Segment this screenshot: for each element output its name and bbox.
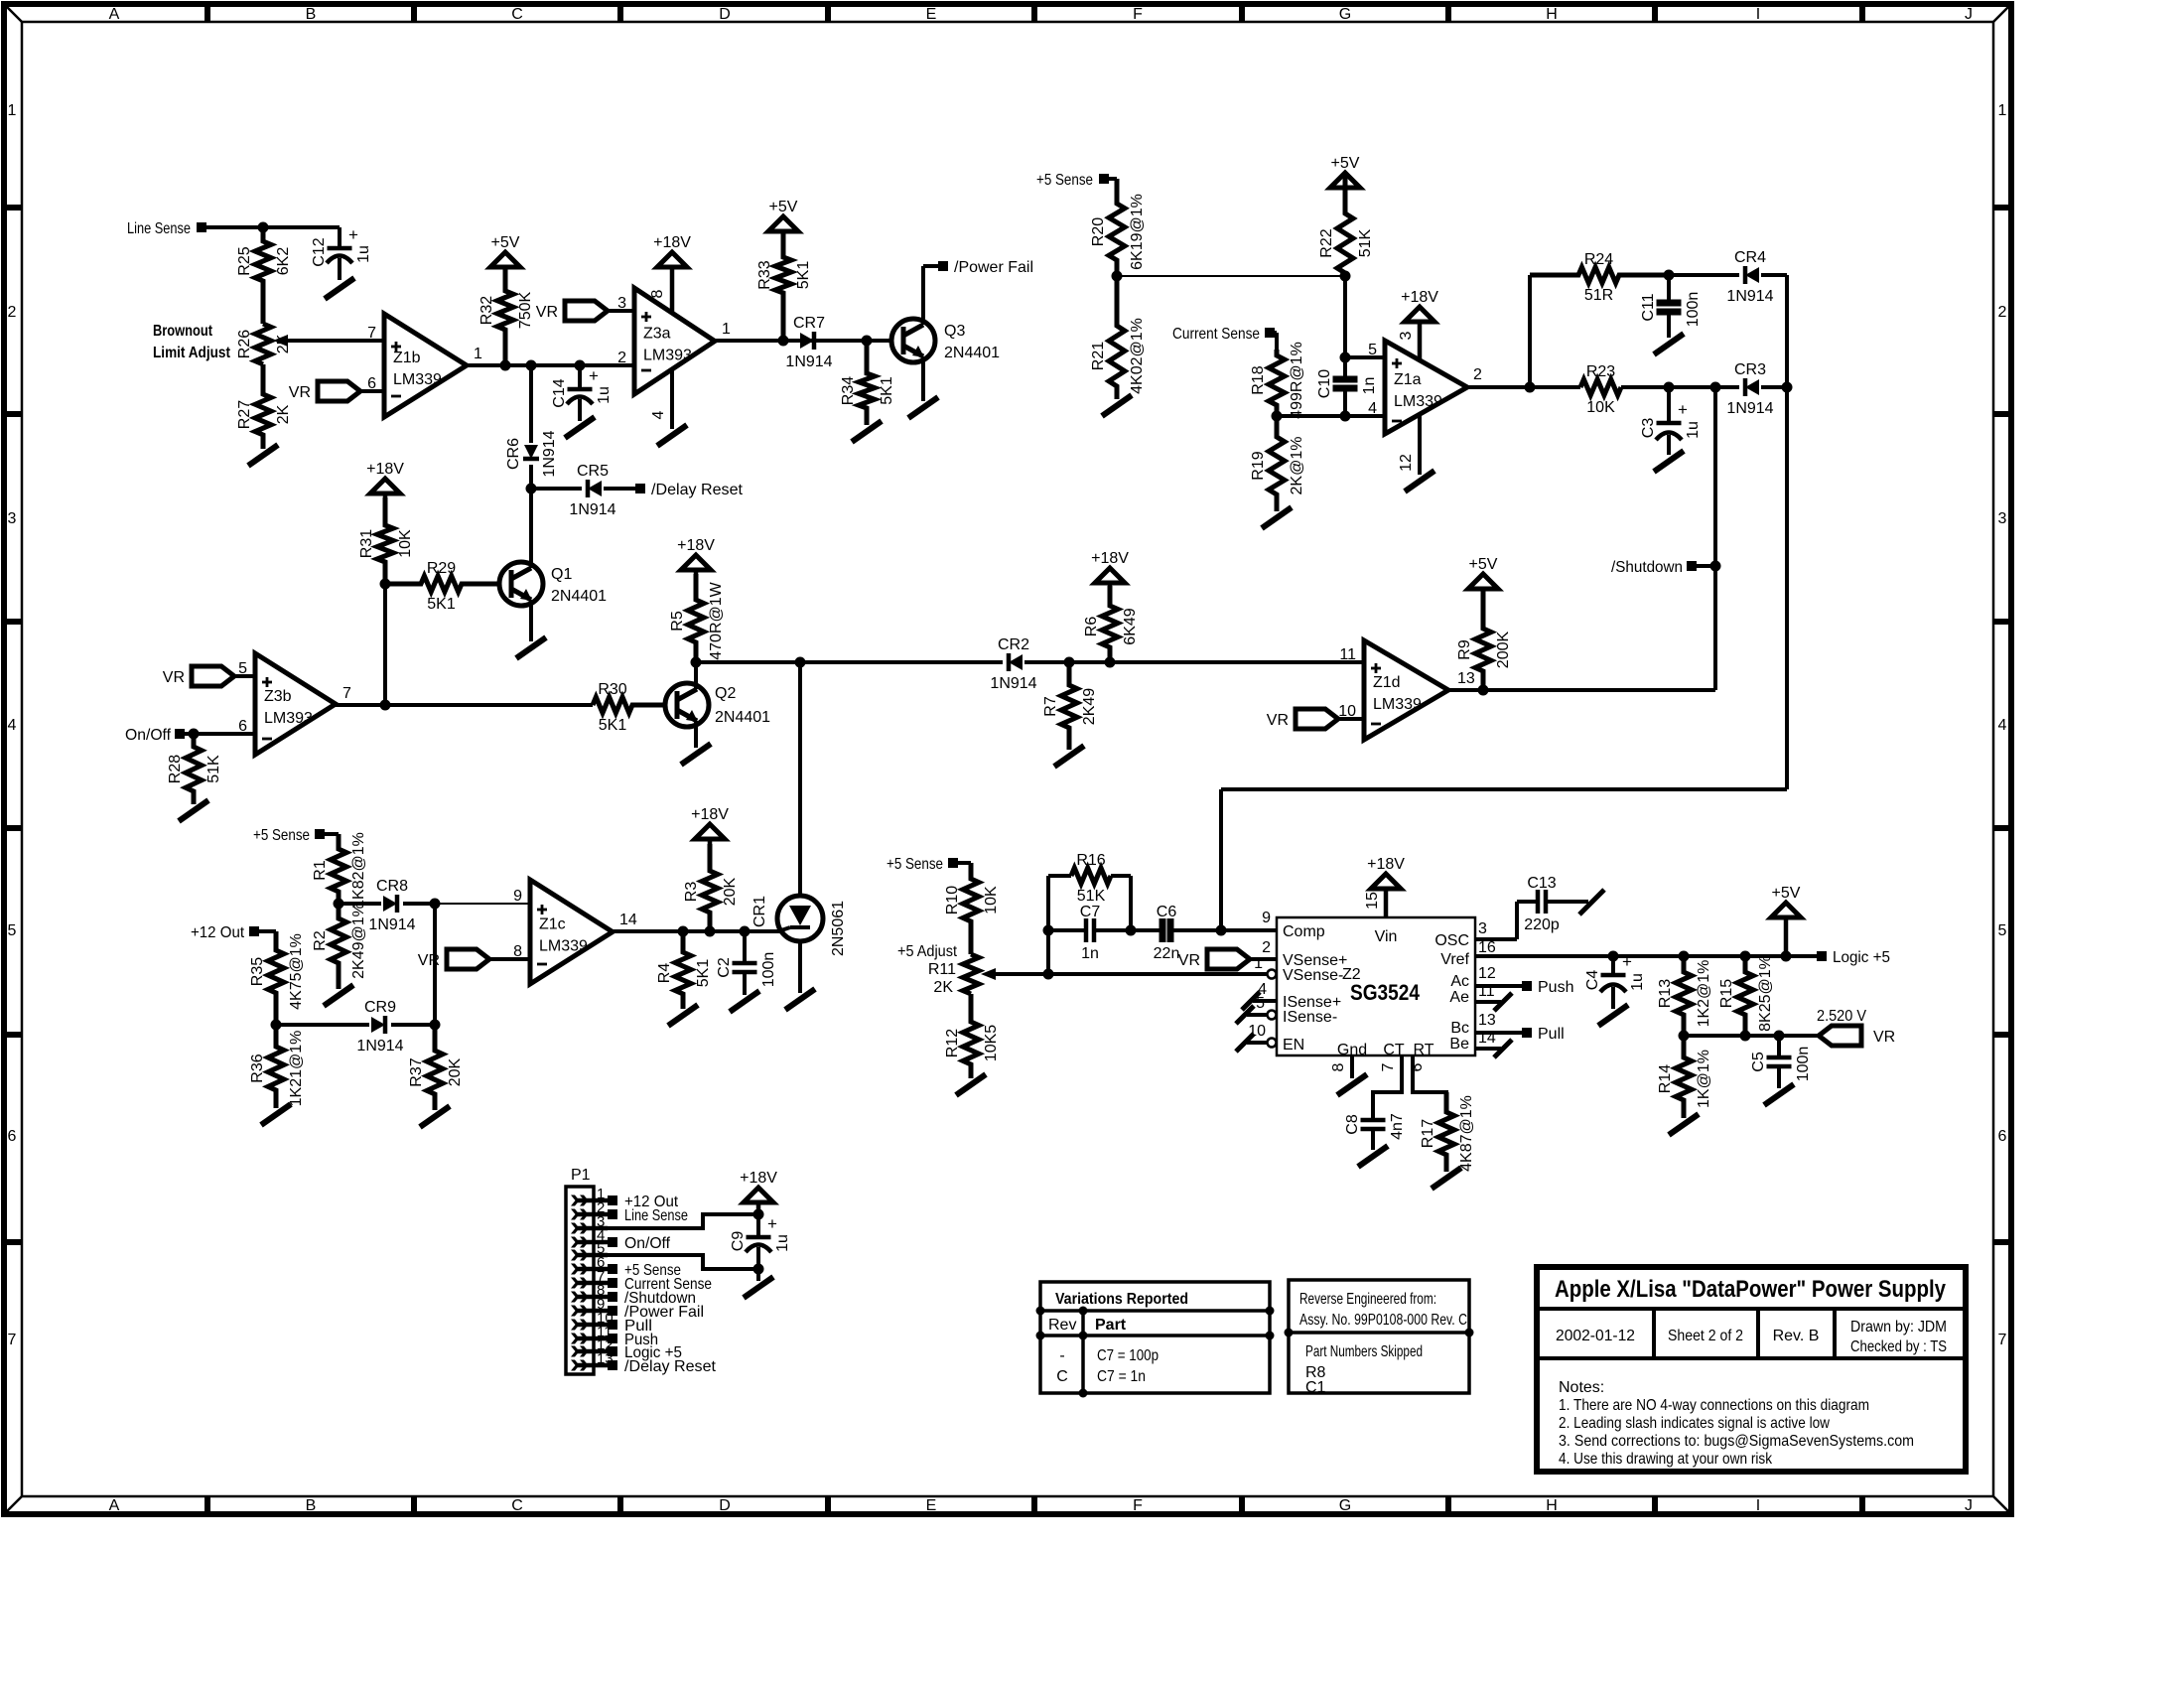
node junction: [1112, 271, 1123, 282]
ground: [179, 800, 208, 821]
svg-text:4K02@1%: 4K02@1%: [1129, 318, 1146, 394]
svg-text:2K: 2K: [933, 979, 953, 996]
resistor R14: [1676, 1036, 1692, 1118]
wire: [1270, 331, 1277, 335]
node /Delay Reset terminal: [635, 484, 645, 493]
svg-text:C7 = 100p: C7 = 100p: [1097, 1347, 1159, 1364]
svg-text:1K@1%: 1K@1%: [1696, 1050, 1712, 1108]
wire Ac: [1475, 984, 1523, 988]
node junction: [740, 926, 751, 937]
svg-text:1u: 1u: [774, 1234, 791, 1252]
node junction: [1525, 382, 1536, 393]
resistor R35: [268, 931, 284, 1025]
wire: [320, 832, 339, 836]
svg-text:51K: 51K: [205, 755, 222, 783]
svg-text:Part: Part: [1095, 1317, 1127, 1334]
node junction: [1781, 951, 1792, 962]
node junction: [1105, 657, 1116, 668]
svg-text:4K87@1%: 4K87@1%: [1458, 1095, 1475, 1172]
wire pin 9: [435, 903, 530, 905]
svg-text:C: C: [511, 1497, 523, 1514]
svg-text:R17: R17: [1420, 1119, 1436, 1148]
resistor R2: [331, 904, 346, 989]
node junction: [753, 1264, 764, 1275]
connector P1 pin 5: [576, 1253, 608, 1258]
wire CR1 anode: [798, 662, 802, 898]
svg-text:3. Send corrections to: bug: 3. Send corrections to: bugs@SigmaSevenS…: [1559, 1433, 1914, 1450]
svg-text:2K: 2K: [275, 404, 292, 424]
svg-text:R25: R25: [236, 246, 253, 275]
svg-text:CR6: CR6: [505, 438, 522, 470]
resistor R24: [1530, 267, 1669, 283]
row ticks: [4, 205, 22, 211]
diode CR5: [588, 481, 602, 496]
node junction: [753, 1209, 764, 1220]
svg-text:Variations Reported: Variations Reported: [1055, 1291, 1188, 1308]
svg-text:6K2: 6K2: [275, 247, 292, 276]
node junction: [1608, 951, 1619, 962]
ground: [908, 397, 938, 418]
svg-text:Vref: Vref: [1440, 951, 1469, 968]
wire Be: [1475, 1047, 1501, 1051]
svg-text:Brownout: Brownout: [153, 323, 213, 340]
svg-text:4: 4: [8, 717, 17, 734]
svg-text:9: 9: [513, 888, 522, 905]
capacitor C7: [1048, 928, 1086, 932]
wire: [339, 902, 381, 906]
power +5V: [1468, 574, 1498, 589]
ground: [1432, 1168, 1461, 1189]
svg-text:R30: R30: [598, 681, 626, 698]
svg-text:6: 6: [1409, 1062, 1426, 1071]
node junction: [1064, 657, 1075, 668]
svg-text:8: 8: [649, 289, 666, 298]
svg-text:+12 Out: +12 Out: [191, 924, 245, 941]
svg-text:+18V: +18V: [677, 537, 715, 554]
svg-text:VR: VR: [289, 384, 311, 401]
resistor R10: [963, 863, 979, 954]
node junction: [526, 360, 537, 371]
wire R16 loop: [1046, 876, 1050, 930]
ground: [1405, 471, 1434, 492]
resistor R22: [1337, 173, 1353, 276]
node junction: [1782, 382, 1793, 393]
svg-text:1: 1: [722, 321, 731, 338]
resistor R3: [702, 844, 718, 931]
power +18V Vin: [1371, 874, 1401, 889]
svg-text:51K: 51K: [1357, 228, 1374, 257]
node junction: [862, 336, 873, 347]
op-amp Z3b: [255, 653, 336, 755]
svg-text:CR8: CR8: [376, 878, 408, 895]
wire OSC: [1475, 937, 1517, 941]
diode CR2: [1009, 654, 1023, 670]
svg-text:On/Off: On/Off: [125, 727, 172, 744]
svg-text:R37: R37: [408, 1057, 425, 1086]
resistor R4: [675, 931, 691, 1009]
svg-text:LM339: LM339: [1373, 696, 1422, 713]
svg-text:J: J: [1965, 6, 1973, 23]
capacitor C13: [1517, 900, 1538, 904]
svg-text:C4: C4: [1584, 970, 1601, 991]
node junction: [271, 1020, 282, 1031]
wire: [1111, 874, 1131, 878]
svg-text:A: A: [109, 1497, 120, 1514]
svg-text:Sheet 2 of 2: Sheet 2 of 2: [1668, 1328, 1743, 1344]
node junction: [1740, 951, 1751, 962]
power +5V: [490, 252, 520, 267]
svg-text:B: B: [306, 6, 317, 23]
svg-text:Rev. B: Rev. B: [1773, 1328, 1820, 1344]
wire Z1a output: [1467, 385, 1580, 389]
svg-text:R6: R6: [1083, 617, 1100, 637]
node junction: [1679, 1031, 1690, 1042]
svg-text:+5V: +5V: [769, 199, 798, 215]
svg-text:+18V: +18V: [366, 461, 404, 478]
svg-text:51K: 51K: [1077, 888, 1106, 905]
svg-text:VR: VR: [418, 952, 440, 969]
node junction: [1272, 411, 1283, 422]
pin 4 ISense+: [1253, 999, 1277, 1003]
diode CR6: [524, 445, 538, 459]
svg-text:J: J: [1965, 1497, 1973, 1514]
svg-text:SG3524: SG3524: [1350, 980, 1421, 1005]
svg-text:+18V: +18V: [1091, 550, 1129, 567]
column ticks: [205, 4, 210, 22]
svg-text:R31: R31: [358, 529, 375, 558]
svg-text:220p: 220p: [1524, 916, 1560, 933]
ground: [668, 1005, 698, 1026]
svg-text:R19: R19: [1250, 451, 1267, 480]
svg-text:Reverse Engineered from:: Reverse Engineered from:: [1299, 1291, 1436, 1308]
pin 5 ISense-: [1268, 1011, 1277, 1020]
ground: [420, 1106, 450, 1127]
svg-text:1n: 1n: [1081, 945, 1099, 962]
svg-text:R36: R36: [249, 1054, 266, 1082]
svg-text:C7: C7: [1080, 904, 1101, 920]
svg-text:C1: C1: [1305, 1379, 1326, 1396]
resistor R23: [1580, 379, 1621, 395]
svg-text:1N914: 1N914: [368, 916, 415, 933]
svg-text:4: 4: [1998, 717, 2007, 734]
ground: [516, 637, 546, 658]
svg-text:2N4401: 2N4401: [944, 345, 1000, 361]
ground: [1669, 1114, 1699, 1135]
svg-text:R24: R24: [1584, 251, 1613, 268]
svg-text:C: C: [1056, 1368, 1068, 1385]
node junction: [778, 336, 789, 347]
wire P1 pin 3 net: [594, 1214, 758, 1228]
connector P1 pin 2: [576, 1212, 608, 1217]
wire pin 12: [1418, 414, 1422, 475]
table Reverse Engineered: [1289, 1280, 1469, 1393]
resistor R19: [1269, 416, 1285, 511]
svg-text:1u: 1u: [1629, 973, 1646, 991]
ground: [956, 1074, 986, 1095]
svg-text:H: H: [1546, 1497, 1558, 1514]
power +5V: [1330, 173, 1360, 188]
svg-text:C12: C12: [311, 237, 328, 266]
wire Z1b output: [467, 363, 634, 367]
power +18V: [1405, 307, 1434, 322]
svg-text:Pull: Pull: [1538, 1026, 1565, 1043]
svg-text:2. Leading slash indicates si: 2. Leading slash indicates signal is act…: [1559, 1415, 1830, 1432]
node /Power Fail terminal: [938, 261, 948, 271]
svg-text:5K1: 5K1: [427, 596, 456, 613]
wire Q2 collector: [694, 662, 698, 689]
svg-text:F: F: [1133, 1497, 1143, 1514]
resistor R12: [963, 994, 979, 1078]
node Push terminal: [1522, 981, 1532, 991]
svg-text:6: 6: [1998, 1128, 2007, 1145]
node junction: [526, 484, 537, 494]
svg-text:2N5061: 2N5061: [830, 901, 847, 956]
svg-text:16: 16: [1478, 939, 1496, 956]
svg-text:9: 9: [1262, 910, 1271, 926]
node junction: [380, 579, 391, 590]
svg-text:R7: R7: [1042, 696, 1059, 717]
svg-text:+18V: +18V: [1367, 856, 1405, 873]
svg-text:14: 14: [1478, 1030, 1496, 1047]
svg-text:A: A: [109, 6, 120, 23]
capacitor C10: [1343, 357, 1347, 379]
svg-text:8K25@1%: 8K25@1%: [1757, 955, 1774, 1032]
node junction: [1043, 969, 1054, 980]
svg-text:+18V: +18V: [653, 234, 691, 251]
wire RT pin 6: [1413, 1055, 1446, 1112]
svg-text:CR2: CR2: [998, 636, 1029, 653]
svg-text:/Delay Reset: /Delay Reset: [624, 1358, 717, 1375]
svg-text:7: 7: [8, 1332, 17, 1348]
resistor R17: [1438, 1092, 1454, 1172]
svg-text:-: -: [1059, 1347, 1064, 1364]
svg-text:2K@1%: 2K@1%: [1289, 437, 1305, 495]
svg-text:LM339: LM339: [393, 371, 442, 388]
wire Q1 collector: [529, 489, 533, 568]
ground: [1598, 1005, 1628, 1026]
svg-text:1N914: 1N914: [785, 353, 832, 370]
resistor R34: [859, 341, 875, 425]
svg-text:7: 7: [342, 685, 351, 702]
wire long net: [1785, 387, 1789, 789]
resistor R7: [1061, 662, 1077, 750]
svg-text:7: 7: [1998, 1332, 2007, 1348]
svg-text:4n7: 4n7: [1389, 1113, 1406, 1140]
wire: [529, 489, 533, 563]
svg-text:Ae: Ae: [1449, 989, 1469, 1006]
svg-text:5: 5: [1256, 995, 1265, 1012]
connector P1 pin 13: [576, 1363, 608, 1368]
svg-text:750K: 750K: [517, 291, 534, 329]
ground: [1579, 890, 1604, 914]
svg-text:H: H: [1546, 6, 1558, 23]
svg-text:VR: VR: [163, 669, 185, 686]
node junction: [691, 657, 702, 668]
connector P1 pin 7: [576, 1281, 608, 1286]
svg-text:5K1: 5K1: [795, 261, 812, 290]
ground: [1262, 507, 1292, 528]
wire CT pin 7: [1373, 1055, 1402, 1120]
power +18V: [695, 824, 725, 839]
svg-text:1K21@1%: 1K21@1%: [288, 1031, 305, 1107]
svg-text:1N914: 1N914: [356, 1038, 403, 1055]
svg-text:CR7: CR7: [793, 315, 825, 332]
svg-text:LM393: LM393: [264, 710, 313, 727]
connector P1 pin 4: [576, 1240, 608, 1245]
svg-text:2N4401: 2N4401: [551, 588, 607, 605]
svg-text:Q3: Q3: [944, 323, 965, 340]
wire: [529, 465, 533, 489]
svg-text:+: +: [1678, 400, 1688, 419]
svg-text:R2: R2: [312, 930, 329, 951]
node junction: [500, 360, 511, 371]
svg-text:RT: RT: [1413, 1042, 1433, 1058]
svg-text:4: 4: [650, 410, 667, 419]
transistor Q3: [891, 319, 935, 362]
svg-text:5K1: 5K1: [599, 717, 627, 734]
svg-text:C10: C10: [1316, 369, 1333, 398]
resistor R27: [255, 364, 271, 449]
wire: [1024, 660, 1364, 664]
wire P1 pin 5 net: [594, 1255, 758, 1269]
svg-text:D: D: [719, 6, 731, 23]
svg-text:2: 2: [617, 350, 626, 366]
svg-text:LM339: LM339: [539, 938, 588, 955]
potentiometer R26: [255, 324, 271, 364]
svg-text:7: 7: [1380, 1062, 1397, 1071]
svg-text:B: B: [306, 1497, 317, 1514]
ground: [785, 989, 815, 1010]
power +18V: [1095, 568, 1125, 583]
svg-text:Drawn by: JDM: Drawn by: JDM: [1850, 1319, 1947, 1336]
wire: [1343, 276, 1347, 357]
svg-text:C11: C11: [1640, 293, 1657, 321]
svg-text:VR: VR: [1178, 952, 1200, 969]
svg-text:CR4: CR4: [1734, 249, 1766, 266]
svg-text:11: 11: [1478, 983, 1495, 1000]
svg-text:R20: R20: [1090, 217, 1107, 246]
node junction: [1216, 925, 1227, 936]
svg-text:R18: R18: [1250, 365, 1267, 394]
svg-text:Comp: Comp: [1283, 923, 1325, 940]
pin 1 VSense-: [1268, 970, 1277, 979]
connector P1 pin 10: [576, 1323, 608, 1328]
wire Bc: [1475, 1031, 1523, 1035]
svg-text:C14: C14: [551, 378, 568, 407]
svg-text:5: 5: [8, 922, 17, 939]
svg-text:R5: R5: [669, 611, 686, 632]
connector P1 pin 1: [576, 1198, 608, 1203]
svg-text:2: 2: [1473, 366, 1482, 383]
ground: [1654, 451, 1684, 472]
node junction: [678, 926, 689, 937]
capacitor C2: [743, 931, 747, 963]
svg-text:13: 13: [1457, 670, 1475, 687]
svg-text:Assy. No. 99P0108-000 Rev. C: Assy. No. 99P0108-000 Rev. C: [1299, 1312, 1467, 1329]
node junction: [258, 222, 269, 233]
svg-text:470R@1W: 470R@1W: [708, 581, 725, 659]
node junction: [334, 899, 344, 910]
svg-text:+: +: [589, 366, 599, 385]
power +18V: [657, 252, 687, 267]
wire Vref rail: [1475, 954, 1818, 958]
resistor R32: [497, 269, 513, 365]
node junction: [1126, 925, 1137, 936]
svg-text:Part Numbers Skipped: Part Numbers Skipped: [1305, 1343, 1423, 1360]
resistor R16: [1071, 868, 1111, 884]
wire: [180, 732, 255, 736]
resistor R5: [688, 574, 704, 662]
svg-text:+: +: [767, 1214, 777, 1233]
svg-text:CR9: CR9: [364, 999, 396, 1016]
pin 10 EN: [1268, 1039, 1277, 1048]
diode CR4: [1745, 267, 1759, 283]
wire: [604, 487, 636, 491]
ground: [1358, 1146, 1388, 1167]
ground: [261, 1104, 291, 1125]
svg-text:1. There are NO 4-way connect: 1. There are NO 4-way connections on thi…: [1559, 1397, 1869, 1414]
ground: [1654, 334, 1684, 354]
node junction: [430, 899, 441, 910]
svg-text:10K: 10K: [397, 529, 414, 558]
svg-text:LM339: LM339: [1394, 393, 1442, 410]
svg-text:I: I: [1756, 1497, 1760, 1514]
svg-text:C: C: [511, 6, 523, 23]
svg-text:C8: C8: [1344, 1114, 1361, 1135]
wire: [403, 902, 435, 906]
svg-text:3: 3: [1398, 331, 1415, 340]
svg-text:Ac: Ac: [1450, 973, 1469, 990]
svg-text:R32: R32: [478, 296, 495, 325]
svg-text:F: F: [1133, 6, 1143, 23]
power +18V: [744, 1188, 773, 1202]
svg-text:12: 12: [1478, 965, 1496, 982]
wire: [391, 1023, 435, 1027]
svg-text:R12: R12: [944, 1029, 961, 1057]
node junction: [705, 926, 716, 937]
svg-text:Limit Adjust: Limit Adjust: [153, 345, 231, 361]
ground: [852, 421, 882, 442]
svg-text:200K: 200K: [1495, 631, 1512, 668]
svg-text:3: 3: [1478, 920, 1487, 937]
power +5V: [768, 216, 798, 231]
svg-text:/Shutdown: /Shutdown: [1611, 559, 1683, 576]
wire feedback: [1528, 275, 1532, 387]
resistor R36: [268, 1025, 284, 1108]
svg-text:R29: R29: [427, 560, 456, 577]
wire: [1713, 386, 1717, 690]
svg-text:E: E: [926, 1497, 937, 1514]
svg-text:14: 14: [619, 912, 637, 928]
svg-text:R4: R4: [656, 963, 673, 984]
svg-text:+18V: +18V: [691, 806, 729, 823]
node Pull terminal: [1522, 1028, 1532, 1038]
svg-text:EN: EN: [1283, 1037, 1304, 1054]
svg-text:1: 1: [474, 346, 482, 362]
wire: [953, 861, 971, 865]
svg-text:Apple X/Lisa "DataPower" Power: Apple X/Lisa "DataPower" Power Supply: [1555, 1276, 1947, 1303]
svg-text:10K: 10K: [1586, 399, 1615, 416]
svg-text:100n: 100n: [760, 952, 777, 988]
svg-text:499R@1%: 499R@1%: [1289, 342, 1305, 419]
node junction: [1340, 271, 1351, 282]
ground: [1102, 395, 1132, 416]
op-amp Z1b: [384, 314, 467, 417]
svg-text:On/Off: On/Off: [624, 1235, 671, 1252]
ground: [1494, 1040, 1512, 1057]
svg-text:1N914: 1N914: [569, 501, 615, 518]
wire Q2 emitter: [694, 721, 698, 748]
